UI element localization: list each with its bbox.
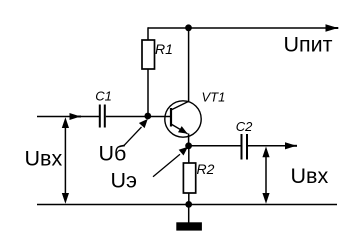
wire collector to top rail xyxy=(188,28,190,102)
wire from top rail down to R1 xyxy=(147,27,149,40)
arrow input signal direction xyxy=(70,113,81,120)
wire top supply rail xyxy=(148,27,328,29)
wire R2 to bottom rail xyxy=(188,193,190,205)
arrow Uэ pointer to emitter node xyxy=(153,147,188,177)
arrow Uб pointer to base node xyxy=(124,119,148,146)
wire R1 bottom to base node xyxy=(147,69,149,117)
node bottom rail junction dot xyxy=(185,201,192,208)
svg-text:VT1: VT1 xyxy=(202,90,226,105)
wire emitter node to R2 xyxy=(188,148,190,163)
transistor VT1 xyxy=(165,101,201,137)
wire C2 to output xyxy=(248,145,286,147)
arrow Uпит supply direction xyxy=(326,24,339,32)
svg-text:C2: C2 xyxy=(236,119,253,134)
wire emitter node to C2 xyxy=(189,145,241,147)
wire input left segment xyxy=(37,116,100,118)
node emitter junction dot xyxy=(185,142,192,149)
svg-text:C1: C1 xyxy=(95,88,112,103)
measure arrow left Uвх (double-headed) xyxy=(62,117,69,203)
wire emitter to node xyxy=(188,134,190,147)
svg-text:Uэ: Uэ xyxy=(111,169,138,193)
arrow output signal direction xyxy=(285,142,297,149)
wire C1 to base xyxy=(106,116,170,118)
capacitor C1 xyxy=(100,105,105,128)
node base junction dot xyxy=(144,113,151,120)
measure arrow right Uвх (double-headed) xyxy=(262,147,269,204)
svg-text:Uвх: Uвх xyxy=(291,164,329,188)
svg-text:Uб: Uб xyxy=(99,142,127,166)
svg-text:R1: R1 xyxy=(155,41,173,57)
svg-text:Uпит: Uпит xyxy=(284,33,333,57)
svg-text:Uвх: Uвх xyxy=(25,147,63,171)
node collector junction dot xyxy=(185,24,192,31)
svg-text:R2: R2 xyxy=(197,161,215,177)
resistor R1 xyxy=(142,40,155,69)
wire bottom rail xyxy=(37,204,337,206)
ground xyxy=(176,205,202,231)
resistor R2 xyxy=(183,163,195,193)
capacitor C2 xyxy=(242,134,248,160)
